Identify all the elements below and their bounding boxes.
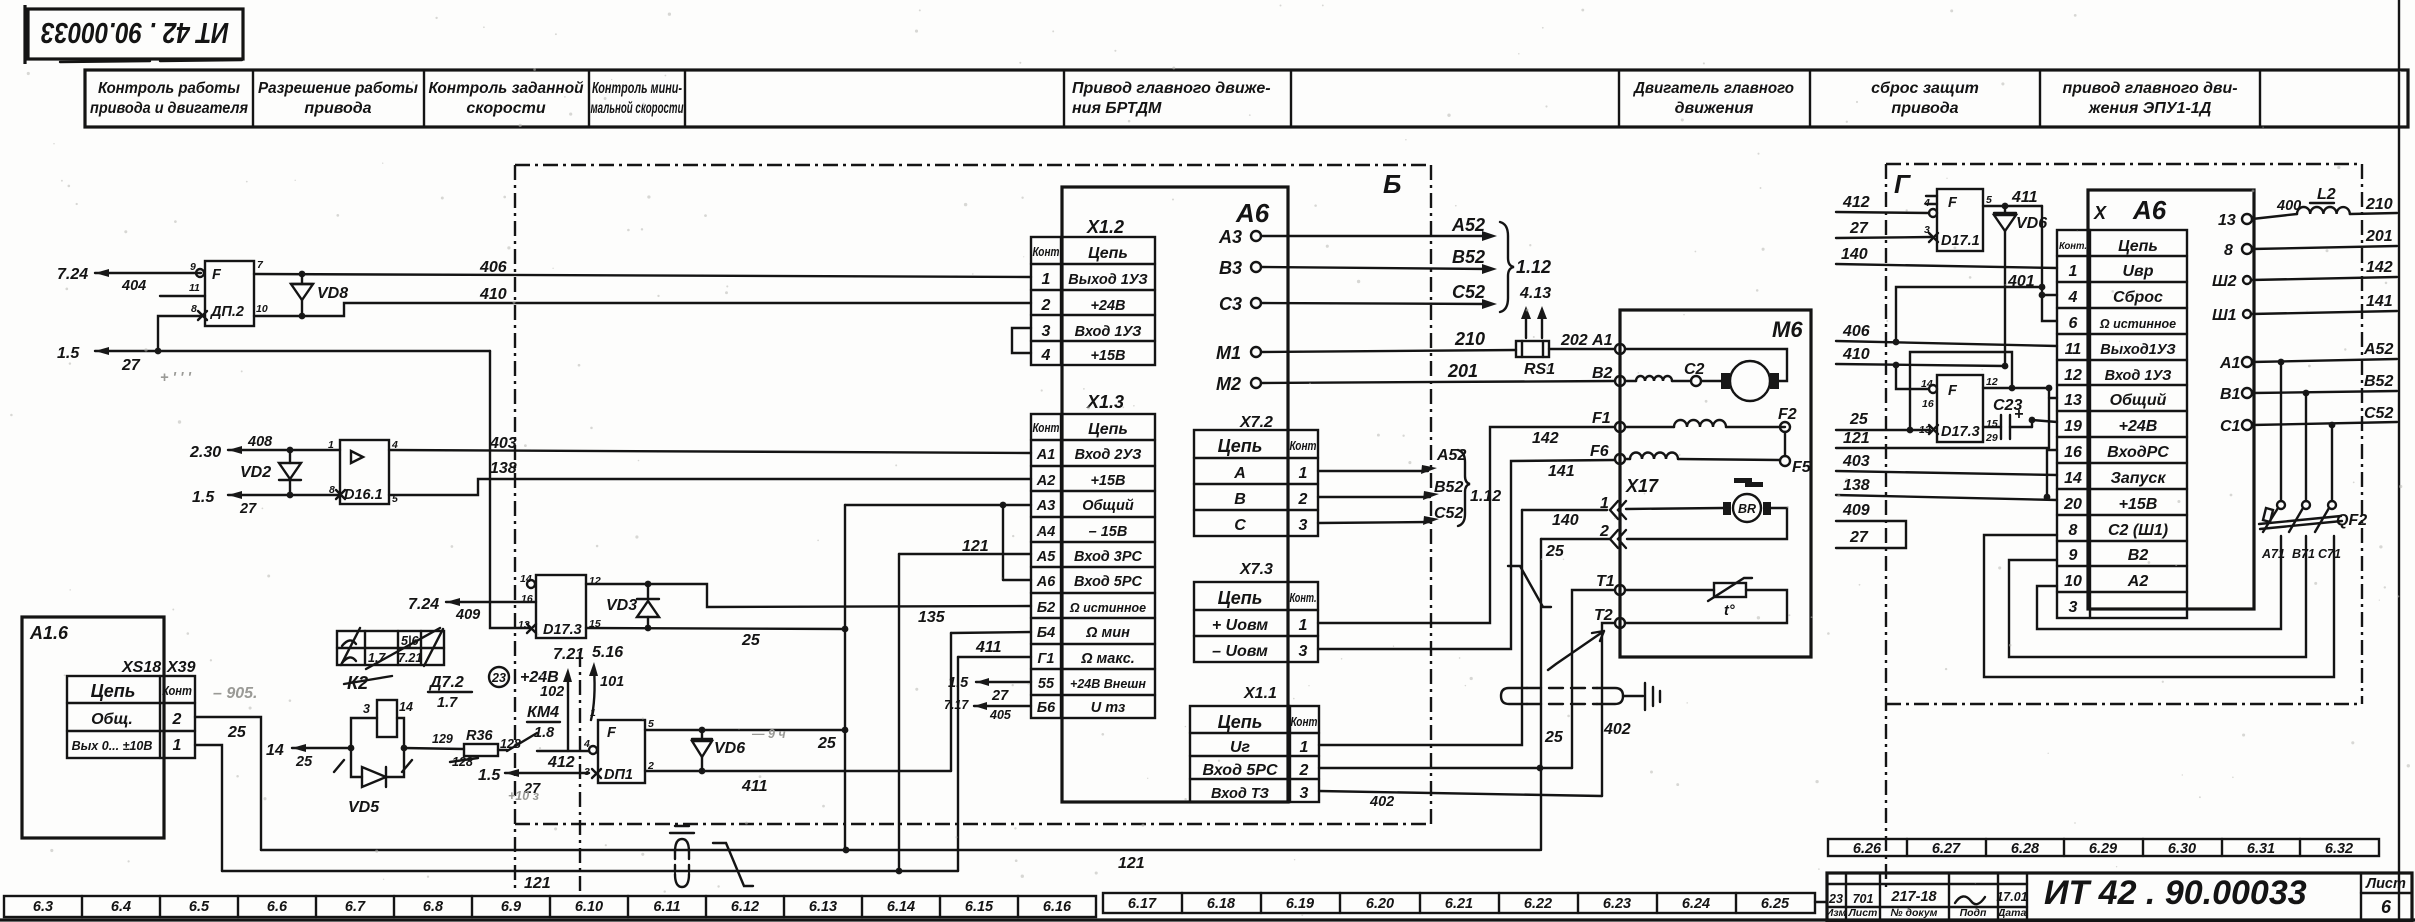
wire X39 pin1 down to bus 121: [195, 745, 222, 871]
wire 142: [2251, 259, 2397, 280]
svg-text:402: 402: [1603, 721, 1631, 738]
B2 inductor and C2: [1625, 361, 1721, 386]
svg-text:7: 7: [257, 259, 264, 271]
wire B3-B52: [1261, 247, 1497, 274]
svg-text:С3: С3: [1219, 294, 1242, 314]
svg-text:7.21: 7.21: [553, 646, 584, 663]
svg-text:6.30: 6.30: [2168, 841, 2196, 857]
svg-text:3: 3: [363, 702, 370, 716]
svg-text:2: 2: [1041, 297, 1051, 314]
svg-text:11: 11: [2065, 341, 2082, 358]
svg-text:сброс защит: сброс защит: [1871, 80, 1979, 97]
svg-text:6.14: 6.14: [887, 899, 915, 915]
svg-text:6.28: 6.28: [2011, 841, 2040, 857]
svg-text:142: 142: [2366, 259, 2393, 276]
page bottom border: [0, 918, 2415, 921]
svg-text:VD2: VD2: [240, 464, 271, 481]
connector table X7.3: [1194, 561, 1318, 662]
svg-text:412: 412: [547, 754, 575, 771]
svg-text:ния БРТДМ: ния БРТДМ: [1072, 100, 1162, 117]
wire pin15 net 25: [586, 625, 848, 649]
svg-text:14: 14: [399, 700, 413, 714]
svg-text:Т1: Т1: [1596, 573, 1615, 590]
svg-text:8: 8: [191, 303, 197, 315]
svg-text:13: 13: [2218, 212, 2236, 229]
svg-text:6.29: 6.29: [2089, 841, 2117, 857]
arrow up +24V net 102 (DP1 pin4): [520, 668, 572, 751]
svg-text:VD8: VD8: [317, 285, 348, 302]
svg-text:X17: X17: [1625, 476, 1659, 496]
svg-text:Вых 0... ±10В: Вых 0... ±10В: [72, 739, 153, 753]
bottom bus 121: [222, 868, 958, 892]
thermistor T1-T2: [1625, 578, 1787, 623]
wire 406: [254, 259, 1031, 277]
header strip of zone titles: [85, 70, 2408, 127]
svg-text:6.31: 6.31: [2247, 841, 2275, 857]
svg-text:Цепь: Цепь: [91, 681, 136, 701]
svg-text:16: 16: [1922, 398, 1934, 410]
svg-text:15: 15: [1986, 418, 1998, 430]
svg-text:Цепь: Цепь: [1088, 245, 1128, 262]
connector table X (right A6): [2057, 230, 2187, 618]
A6 terminals A3 B3 C3 M1 M2: [1216, 227, 1261, 394]
svg-text:VD6: VD6: [714, 740, 745, 757]
svg-text:F5: F5: [1792, 459, 1812, 476]
circled 23 mark: [489, 667, 509, 687]
svg-text:+15В: +15В: [1090, 348, 1125, 364]
svg-text:Контроль мини-: Контроль мини-: [592, 80, 682, 97]
svg-text:6.32: 6.32: [2325, 841, 2353, 857]
svg-text:t°: t°: [1724, 603, 1735, 619]
svg-text:№ докум: № докум: [1891, 907, 1938, 919]
svg-text:16: 16: [521, 593, 533, 605]
svg-text:6.4: 6.4: [111, 899, 131, 915]
svg-text:404: 404: [121, 278, 146, 294]
svg-text:С52: С52: [1452, 282, 1485, 302]
wire VhodT3 net 402: [1319, 791, 1602, 810]
svg-text:Ω макс.: Ω макс.: [1080, 651, 1135, 667]
svg-text:Вход 1УЗ: Вход 1УЗ: [1075, 324, 1142, 340]
svg-text:3: 3: [1299, 517, 1308, 534]
svg-text:Цепь: Цепь: [1218, 436, 1263, 456]
wire 403 (D16.1 pin4 to X1.3 A1): [389, 435, 1031, 453]
svg-text:25: 25: [1849, 411, 1869, 428]
svg-text:1.5: 1.5: [948, 675, 969, 691]
svg-text:12: 12: [2064, 367, 2082, 384]
svg-text:X1.3: X1.3: [1086, 392, 1124, 412]
svg-text:140: 140: [1841, 246, 1868, 263]
svg-text:25: 25: [741, 632, 761, 649]
net A3/A6 (Obshchiy) vertical: [845, 502, 1031, 850]
logic block D17.3 (left): [518, 573, 601, 638]
wire 410: [254, 286, 1031, 319]
svg-text:– Uовм: – Uовм: [1212, 643, 1268, 660]
svg-text:138: 138: [490, 460, 517, 477]
svg-text:14: 14: [266, 742, 284, 759]
svg-text:6.27: 6.27: [1932, 841, 1961, 857]
svg-text:201: 201: [1447, 361, 1478, 381]
wire BR to X17 contact 2: [1541, 508, 1787, 548]
link 410 to D17.3 pin14: [1893, 362, 1928, 389]
svg-text:Вход 5РС: Вход 5РС: [1074, 574, 1143, 590]
svg-text:6.24: 6.24: [1682, 896, 1710, 912]
wire 210 M1 to RS1 to M6.A1: [1261, 329, 1516, 352]
svg-text:Ω истинное: Ω истинное: [1069, 601, 1146, 615]
wire C3-C52: [1261, 282, 1497, 309]
svg-text:ИТ 42 . 90.00033: ИТ 42 . 90.00033: [2044, 874, 2307, 912]
svg-text:Дата: Дата: [1997, 907, 2027, 919]
svg-text:КМ4: КМ4: [527, 704, 559, 721]
wire 403 to row14: [1836, 453, 2057, 475]
wire B52: [2252, 373, 2397, 396]
svg-text:F: F: [212, 267, 222, 283]
svg-text:701: 701: [1853, 892, 1874, 906]
svg-text:6.5: 6.5: [189, 899, 210, 915]
svg-text:Ω истинное: Ω истинное: [2099, 317, 2176, 331]
node 7.24 / 409 arrow (to D17.3 pin16): [408, 596, 536, 623]
unit A6 (central): [1062, 187, 1288, 802]
svg-text:129: 129: [432, 732, 453, 746]
jumper bracket X1.2 pins 3-4: [1012, 328, 1031, 353]
svg-text:С: С: [1234, 517, 1246, 534]
svg-text:Подп: Подп: [1960, 907, 1987, 919]
wire 201: [2252, 228, 2397, 249]
svg-text:А52: А52: [1451, 215, 1485, 235]
svg-text:Разрешение работы: Разрешение работы: [258, 80, 418, 97]
wire 138 to row20 and row16 riser: [1836, 450, 2057, 500]
wire 138 (D16.1 pin5 to X1.3 A2): [389, 460, 1031, 495]
svg-text:6.19: 6.19: [1286, 896, 1314, 912]
svg-text:С2 (Ш1): С2 (Ш1): [2108, 522, 2168, 539]
svg-text:1: 1: [1299, 465, 1308, 482]
svg-text:403: 403: [1842, 453, 1870, 470]
svg-text:409: 409: [455, 607, 480, 623]
svg-text:DП1: DП1: [604, 767, 633, 783]
svg-text:ВходРС: ВходРС: [2107, 444, 2169, 461]
svg-text:Общ.: Общ.: [91, 711, 133, 728]
svg-text:23: 23: [491, 671, 506, 685]
svg-text:движения: движения: [1675, 100, 1754, 117]
svg-text:+24В Внешн: +24В Внешн: [1070, 677, 1146, 691]
svg-text:А3: А3: [1036, 498, 1056, 514]
svg-text:Сброс: Сброс: [2113, 289, 2163, 306]
connector table X1.3: [1031, 392, 1155, 718]
svg-text:6.18: 6.18: [1207, 896, 1236, 912]
connector table X1.1: [1190, 685, 1319, 802]
svg-text:411: 411: [741, 778, 768, 795]
svg-text:25: 25: [1544, 729, 1564, 746]
svg-text:В52: В52: [2364, 373, 2393, 390]
wire DP1 pin3 to 1.5/27 arrow: [478, 767, 589, 803]
motor unit M6: [1620, 310, 1811, 657]
svg-text:В52: В52: [1434, 479, 1463, 496]
svg-text:121: 121: [962, 538, 989, 555]
svg-text:С52: С52: [2364, 405, 2393, 422]
svg-text:406: 406: [479, 259, 507, 276]
svg-text:Общий: Общий: [2110, 392, 2167, 409]
svg-text:6.6: 6.6: [267, 899, 288, 915]
diode VD6 (near DP1): [692, 730, 745, 771]
svg-text:7.24: 7.24: [57, 266, 88, 283]
shaft symbol (dashed capsule): [1501, 688, 1623, 704]
svg-text:RS1: RS1: [1524, 361, 1555, 378]
svg-text:X7.2: X7.2: [1239, 414, 1273, 431]
svg-text:+24В: +24В: [1090, 298, 1125, 314]
svg-text:— 9 ч: — 9 ч: [751, 727, 786, 741]
svg-text:6.16: 6.16: [1043, 899, 1072, 915]
title block: [1826, 873, 2412, 922]
svg-text:Вход ТЗ: Вход ТЗ: [1211, 786, 1269, 802]
svg-text:мальной скорости: мальной скорости: [591, 100, 684, 117]
svg-text:+10 з: +10 з: [508, 789, 540, 803]
svg-text:10: 10: [256, 303, 268, 315]
svg-text:7.17: 7.17: [944, 698, 969, 712]
svg-text:11: 11: [189, 282, 200, 294]
svg-text:Выход 1УЗ: Выход 1УЗ: [1068, 272, 1147, 288]
svg-text:210: 210: [2365, 196, 2393, 213]
svg-text:412: 412: [1842, 194, 1870, 211]
loop 25 to pin12 wire: [1907, 352, 2016, 433]
svg-text:Запуск: Запуск: [2111, 470, 2167, 487]
node 1.5/27 arrow to B5: [948, 675, 1031, 704]
svg-text:Цепь: Цепь: [1218, 712, 1263, 732]
wire 121: [1836, 430, 2049, 448]
svg-text:В: В: [1234, 491, 1246, 508]
svg-text:В1: В1: [2220, 386, 2241, 403]
svg-text:7.21: 7.21: [398, 651, 422, 665]
block B boundary (dash-dot): [515, 165, 1431, 893]
svg-text:А2: А2: [1036, 473, 1056, 489]
svg-text:4: 4: [1041, 347, 1051, 364]
svg-text:+ ' ' ': + ' ' ': [160, 370, 191, 386]
svg-text:Конт.: Конт.: [1290, 591, 1317, 605]
wire +Uovm net 142 to F1: [1318, 427, 1615, 623]
svg-text:F: F: [607, 725, 617, 741]
svg-text:25: 25: [817, 735, 837, 752]
svg-text:А2: А2: [2127, 573, 2149, 590]
svg-text:BR: BR: [1738, 502, 1756, 516]
svg-text:Ω мин: Ω мин: [1085, 625, 1130, 641]
svg-text:+15В: +15В: [2119, 496, 2158, 513]
wire A52: [2252, 341, 2397, 365]
svg-text:Конт.: Конт.: [2059, 240, 2087, 252]
node 7.17/405 arrow to B6: [944, 698, 1031, 722]
wire A3-A52: [1261, 215, 1497, 241]
switch contact KM4: [498, 704, 589, 771]
svg-text:6.3: 6.3: [33, 899, 53, 915]
svg-text:1: 1: [2069, 263, 2078, 280]
svg-text:102: 102: [540, 684, 564, 700]
svg-text:Изм: Изм: [1826, 907, 1847, 919]
svg-text:9: 9: [2069, 547, 2078, 564]
page right border: [2398, 0, 2400, 922]
svg-text:140: 140: [1552, 512, 1579, 529]
svg-text:6.20: 6.20: [1366, 896, 1394, 912]
svg-text:402: 402: [1369, 794, 1394, 810]
svg-text:1: 1: [328, 439, 334, 451]
svg-text:6.12: 6.12: [731, 899, 759, 915]
svg-text:2: 2: [1599, 523, 1609, 540]
svg-text:привода: привода: [1891, 100, 1958, 117]
svg-text:F6: F6: [1590, 443, 1609, 460]
svg-text:19: 19: [2064, 418, 2082, 435]
svg-text:А6: А6: [2132, 195, 2167, 225]
inductor L2 and wire 210: [2252, 186, 2397, 219]
svg-text:F: F: [1948, 383, 1958, 399]
svg-text:217-18: 217-18: [1890, 889, 1937, 905]
svg-text:+: +: [2014, 406, 2023, 423]
svg-text:Выход1УЗ: Выход1УЗ: [2100, 342, 2175, 358]
svg-text:скорости: скорости: [466, 100, 545, 117]
svg-text:М6: М6: [1772, 317, 1803, 342]
grounding stud through bus: [670, 826, 694, 887]
svg-text:6.15: 6.15: [965, 899, 994, 915]
svg-text:6.9: 6.9: [501, 899, 521, 915]
svg-text:Вход 2УЗ: Вход 2УЗ: [1075, 447, 1142, 463]
svg-text:С1: С1: [2220, 418, 2241, 435]
svg-text:1.8: 1.8: [534, 725, 555, 741]
logic block DP1: [583, 707, 654, 783]
svg-text:141: 141: [2366, 293, 2393, 310]
wire pin8 to node 27: [158, 316, 205, 351]
svg-text:– 905.: – 905.: [213, 685, 257, 702]
svg-text:X7.3: X7.3: [1239, 561, 1273, 578]
svg-text:U тз: U тз: [1091, 700, 1126, 716]
zone divider dash-dot at x=580: [579, 652, 581, 891]
svg-text:5.16: 5.16: [592, 644, 623, 661]
svg-text:8: 8: [2069, 522, 2078, 539]
svg-text:В3: В3: [1219, 258, 1242, 278]
svg-text:3: 3: [1299, 643, 1308, 660]
svg-text:4: 4: [583, 738, 590, 750]
svg-text:С52: С52: [1434, 505, 1463, 522]
svg-text:Конт: Конт: [1291, 715, 1318, 729]
logic block D17.1: [1923, 189, 1992, 251]
svg-text:В71: В71: [2292, 547, 2315, 561]
svg-text:14: 14: [1921, 378, 1933, 390]
K2 contact cross-reference table (crossed out): [337, 628, 472, 711]
svg-text:X39: X39: [166, 659, 196, 676]
bottom zone strip middle (6.17-6.25): [1103, 893, 1827, 913]
capacitor C23: [1983, 397, 2057, 439]
svg-text:27: 27: [1849, 529, 1869, 546]
svg-text:403: 403: [489, 435, 517, 452]
svg-text:6.10: 6.10: [575, 899, 603, 915]
svg-text:F1: F1: [1592, 410, 1611, 427]
svg-text:10: 10: [2064, 573, 2082, 590]
wire 27 to D17.1 pin3: [1836, 220, 1931, 238]
right A6 terminals: [2212, 212, 2252, 435]
svg-text:142: 142: [1532, 430, 1559, 447]
svg-text:9: 9: [190, 261, 196, 273]
diode VD6 (G): [1994, 206, 2047, 369]
svg-text:Лист: Лист: [1848, 907, 1878, 919]
svg-text:А5: А5: [1036, 549, 1056, 565]
svg-text:16: 16: [2064, 444, 2082, 461]
svg-text:Д7.2: Д7.2: [428, 674, 464, 691]
svg-text:1.5: 1.5: [478, 767, 501, 784]
svg-text:Контроль работы: Контроль работы: [98, 80, 240, 97]
comparator D16.1: [328, 439, 398, 505]
svg-text:29: 29: [1985, 432, 1998, 444]
svg-text:23: 23: [1828, 892, 1843, 906]
svg-text:410: 410: [479, 286, 507, 303]
node 2.30 / 408 arrow: [189, 434, 340, 461]
svg-text:1: 1: [1299, 617, 1308, 634]
wrap wire C2(Sh1) to QF2-C: [1984, 535, 2334, 677]
net 401 vertical to row6: [2007, 206, 2057, 321]
svg-text:411: 411: [975, 639, 1002, 656]
resistor R36: [404, 728, 521, 769]
connector table X7.2: [1194, 414, 1318, 536]
wrap wire B2 to QF2-B: [2009, 536, 2306, 657]
ref 4.13 with two up arrows: [1519, 285, 1551, 338]
svg-text:1.12: 1.12: [1470, 488, 1501, 505]
wire pin5 net 411: [1983, 189, 2042, 209]
svg-text:Вход 3РС: Вход 3РС: [1074, 549, 1143, 565]
svg-text:1: 1: [1042, 271, 1051, 288]
svg-text:X: X: [2093, 203, 2107, 223]
svg-text:3: 3: [1300, 785, 1309, 802]
svg-text:Ш1: Ш1: [2212, 307, 2237, 324]
svg-text:Uвр: Uвр: [2123, 263, 2154, 280]
wire 412 to D17.1 pin4: [1836, 194, 1929, 213]
svg-text:А1: А1: [1036, 447, 1056, 463]
svg-text:202 А1: 202 А1: [1560, 332, 1613, 349]
svg-text:3: 3: [2069, 599, 2078, 616]
relay contact K2 with diode VD5: [266, 700, 413, 816]
svg-text:Т2: Т2: [1594, 607, 1613, 624]
svg-text:14: 14: [520, 573, 532, 585]
svg-text:Конт: Конт: [1033, 421, 1060, 435]
bottom bus wire (to X1.1 area): [261, 847, 1540, 872]
pin 11 stub: [160, 295, 205, 297]
svg-text:C2: C2: [1684, 361, 1705, 378]
svg-text:L2: L2: [2317, 186, 2336, 203]
svg-text:1: 1: [590, 707, 596, 719]
svg-text:1: 1: [1300, 739, 1309, 756]
op-amp DP.2: [189, 259, 268, 326]
svg-text:М1: М1: [1216, 343, 1241, 363]
svg-text:121: 121: [1118, 855, 1145, 872]
svg-text:410: 410: [1842, 346, 1870, 363]
armature motor circle with brushes: [1625, 349, 1787, 401]
brace 1.12: [1500, 222, 1551, 312]
svg-text:Б2: Б2: [1037, 600, 1055, 616]
svg-text:101: 101: [600, 674, 624, 690]
svg-text:27: 27: [991, 688, 1009, 704]
unit A6 (right): [2088, 190, 2254, 609]
net 121 riser to A5: [899, 538, 1031, 871]
svg-text:Б: Б: [1383, 169, 1401, 199]
screen slash mark on bus: [713, 843, 753, 886]
svg-text:А: А: [1233, 465, 1246, 482]
svg-text:X1.1: X1.1: [1243, 685, 1277, 702]
connector table XS18/X39: [67, 676, 195, 758]
wire T2 net 402: [1602, 623, 1631, 796]
wires 409/27 hook: [1836, 502, 1906, 548]
svg-text:Uг: Uг: [1230, 739, 1251, 756]
svg-text:2: 2: [172, 711, 182, 728]
wire Vhod5RS to T1 riser: [1319, 765, 1572, 772]
svg-text:Вход 1УЗ: Вход 1УЗ: [2105, 368, 2172, 384]
svg-text:25: 25: [1545, 543, 1565, 560]
svg-text:D17.3: D17.3: [543, 622, 582, 638]
svg-text:6.8: 6.8: [423, 899, 444, 915]
svg-text:В52: В52: [1452, 247, 1485, 267]
svg-text:20: 20: [2063, 496, 2082, 513]
svg-text:27: 27: [121, 357, 141, 374]
